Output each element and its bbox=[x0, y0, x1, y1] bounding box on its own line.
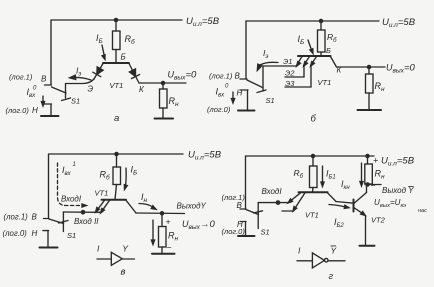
svg-text:Uи.п=5В: Uи.п=5В bbox=[382, 17, 416, 29]
svg-text:Uи.п=5В: Uи.п=5В bbox=[188, 150, 222, 162]
svg-text:(лог.0): (лог.0) bbox=[3, 229, 28, 238]
svg-text:VT1: VT1 bbox=[110, 81, 124, 90]
svg-text:в: в bbox=[121, 266, 126, 277]
svg-text:S1: S1 bbox=[71, 97, 80, 106]
svg-text:б: б bbox=[311, 114, 317, 125]
svg-text:S1: S1 bbox=[67, 231, 76, 240]
svg-text:Вход II: Вход II bbox=[74, 217, 99, 226]
svg-text:Н: Н bbox=[32, 229, 38, 238]
svg-text:Э3: Э3 bbox=[285, 79, 295, 88]
svg-text:ВыходY: ВыходY bbox=[177, 202, 207, 211]
svg-text:VT1: VT1 bbox=[318, 78, 332, 87]
svg-text:S1: S1 bbox=[266, 96, 275, 105]
svg-text:нас: нас bbox=[418, 208, 427, 214]
svg-text:а: а bbox=[114, 113, 119, 124]
svg-text:S1: S1 bbox=[261, 228, 270, 237]
svg-text:Выход Y: Выход Y bbox=[382, 186, 414, 195]
svg-text:Э: Э bbox=[88, 85, 94, 94]
svg-text:1: 1 bbox=[73, 162, 76, 168]
svg-text:(лог.0): (лог.0) bbox=[6, 106, 30, 115]
svg-text:В: В bbox=[32, 213, 38, 222]
svg-text:(лог.1): (лог.1) bbox=[9, 73, 33, 82]
svg-text:Б: Б bbox=[121, 53, 126, 62]
svg-text:−: − bbox=[371, 181, 376, 191]
svg-text:(лог.0): (лог.0) bbox=[207, 105, 231, 114]
svg-text:Б: Б bbox=[326, 46, 331, 55]
svg-text:В: В bbox=[41, 75, 47, 84]
svg-text:Uи.п=5В: Uи.п=5В bbox=[186, 16, 220, 28]
svg-text:+: + bbox=[373, 156, 378, 166]
svg-text:ВходI: ВходI bbox=[262, 187, 283, 196]
svg-text:VT1: VT1 bbox=[305, 211, 319, 220]
svg-text:(лог.1): (лог.1) bbox=[209, 72, 233, 81]
svg-text:Uи.п=5В: Uи.п=5В bbox=[381, 156, 415, 168]
svg-text:(лог.0): (лог.0) bbox=[222, 227, 246, 236]
svg-text:(лог.1): (лог.1) bbox=[4, 213, 29, 222]
svg-text:+: + bbox=[166, 217, 171, 227]
svg-text:VT1: VT1 bbox=[95, 189, 109, 198]
svg-text:ВходI: ВходI bbox=[61, 195, 82, 204]
svg-text:Н: Н bbox=[32, 106, 38, 115]
svg-text:Н: Н bbox=[237, 89, 243, 98]
svg-text:В: В bbox=[235, 72, 241, 81]
svg-text:В: В bbox=[237, 201, 243, 210]
svg-text:Э2: Э2 bbox=[285, 69, 295, 78]
svg-text:Э1: Э1 bbox=[283, 57, 292, 66]
svg-text:VT2: VT2 bbox=[371, 216, 386, 225]
svg-text:г: г bbox=[329, 271, 334, 282]
svg-text:−: − bbox=[167, 243, 172, 253]
